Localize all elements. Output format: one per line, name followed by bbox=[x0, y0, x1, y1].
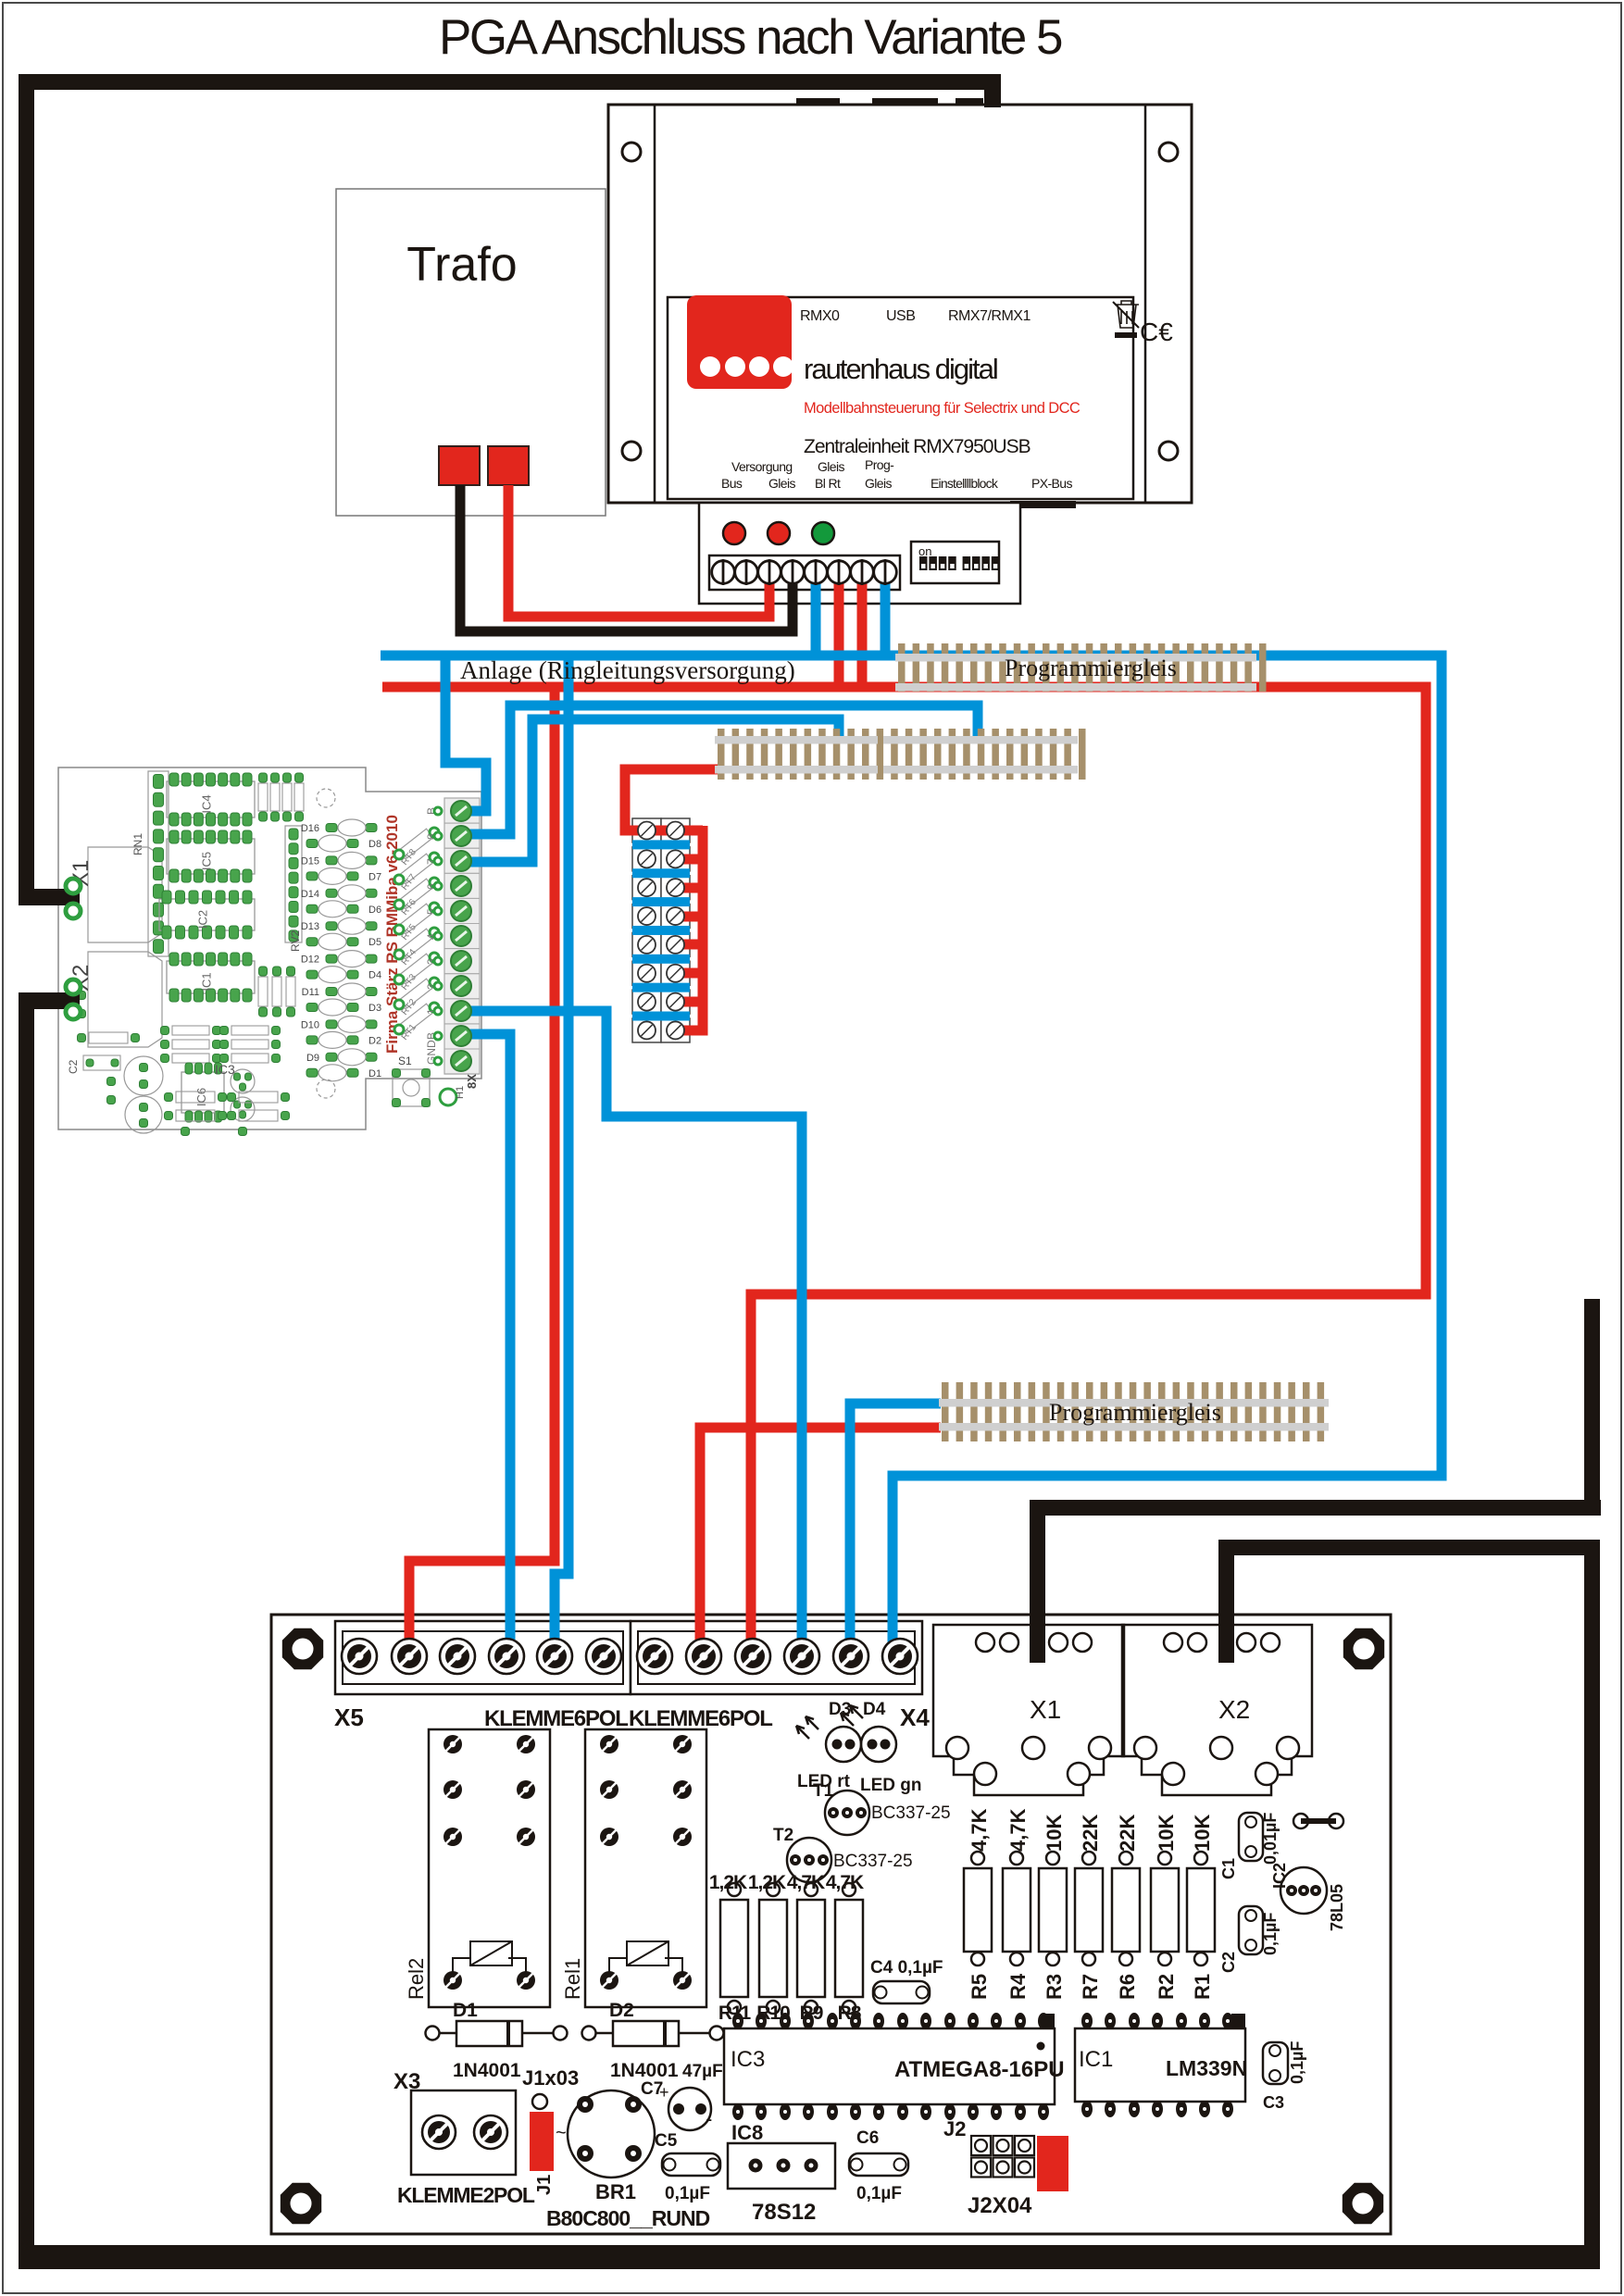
left PCB extra pads bottom bbox=[107, 1078, 116, 1086]
svg-text:Programmiergleis: Programmiergleis bbox=[1005, 655, 1177, 681]
svg-text:D1: D1 bbox=[453, 2000, 478, 2021]
fuse F1 bbox=[89, 1032, 128, 1043]
mounting hole pad top-left bbox=[282, 1628, 323, 1669]
svg-text:Bl Rt: Bl Rt bbox=[815, 476, 841, 491]
svg-text:D4: D4 bbox=[863, 1700, 886, 1719]
svg-text:D9: D9 bbox=[306, 1053, 319, 1064]
housing bottom tab bbox=[1010, 501, 1076, 508]
left mounting flange line bbox=[654, 105, 656, 503]
resistors R1 R12 R10 R9 bottom rows bbox=[176, 1092, 215, 1103]
svg-text:D8: D8 bbox=[369, 839, 381, 850]
svg-text:IC6: IC6 bbox=[194, 1088, 208, 1106]
resistors R23 R21 area bbox=[258, 783, 268, 811]
svg-text:BC337-25: BC337-25 bbox=[833, 1852, 913, 1871]
wire: red from Gleis Rt screw 7 to Programmiergleis bbox=[857, 572, 868, 687]
wire: trafo red lead to Versorgung bbox=[508, 485, 769, 617]
svg-text:D1: D1 bbox=[369, 1068, 381, 1079]
capacitor C3 bbox=[1263, 2042, 1288, 2084]
resistors R5 R4 R3 R7 R6 R2 R1 vertical bbox=[964, 1868, 992, 1952]
Zentraleinheit terminal screws 1-8 bbox=[712, 561, 735, 584]
transistor T1 bbox=[825, 1791, 869, 1835]
svg-text:on: on bbox=[918, 544, 931, 558]
svg-text:D15: D15 bbox=[301, 855, 319, 867]
svg-text:X4: X4 bbox=[900, 1703, 930, 1731]
svg-text:Programmiergleis: Programmiergleis bbox=[1049, 1399, 1221, 1426]
tact switch S1 bbox=[393, 1069, 430, 1106]
svg-text:4,7K: 4,7K bbox=[826, 1872, 864, 1893]
Zentraleinheit RMX7950USB housing bbox=[608, 105, 1192, 503]
svg-text:ATMEGA8-16PU: ATMEGA8-16PU bbox=[894, 2057, 1065, 2082]
IC6 opto bbox=[181, 1072, 224, 1113]
mounting hole pad bottom-left bbox=[281, 2183, 321, 2224]
svg-text:C2: C2 bbox=[1219, 1952, 1238, 1973]
middle terminal block 2x8 bbox=[632, 818, 661, 842]
capacitor C2 left board bbox=[83, 1055, 120, 1070]
svg-text:D14: D14 bbox=[301, 889, 319, 900]
svg-text:LM339N: LM339N bbox=[1166, 2056, 1247, 2080]
svg-text:BR1: BR1 bbox=[595, 2180, 636, 2203]
svg-text:Modellbahnsteuerung für Select: Modellbahnsteuerung für Selectrix und DC… bbox=[804, 400, 1081, 417]
svg-text:78L05: 78L05 bbox=[1328, 1884, 1346, 1931]
wire jumper top right bbox=[1293, 1814, 1308, 1828]
svg-text:KLEMME6POL: KLEMME6POL bbox=[629, 1706, 772, 1731]
wire: black right vertical (upper, open end) bbox=[1584, 1299, 1600, 1516]
wire: thick black bus top run bbox=[19, 74, 1001, 90]
svg-text:0,1µF: 0,1µF bbox=[665, 2184, 710, 2203]
DIP switch block Einstellblock bbox=[911, 542, 999, 583]
svg-text:Einstellllblock: Einstellllblock bbox=[931, 476, 999, 491]
mounting hole top-left bbox=[622, 143, 641, 161]
svg-text:10K: 10K bbox=[1043, 1815, 1066, 1852]
svg-text:D4: D4 bbox=[369, 970, 381, 981]
wire: blue Anlage ring line bbox=[381, 655, 1442, 1662]
capacitor C2 bbox=[1239, 1906, 1263, 1954]
capacitor C1 bbox=[1239, 1813, 1263, 1861]
svg-text:D5: D5 bbox=[369, 937, 381, 948]
wire: blue branch to left PCB screw B bbox=[445, 655, 486, 811]
voltage regulator IC2 78L05 bbox=[1280, 1867, 1327, 1914]
svg-text:D11: D11 bbox=[302, 987, 319, 998]
svg-text:R7: R7 bbox=[1079, 1974, 1102, 2000]
PCB connector X2 outline bbox=[88, 952, 162, 1047]
diagonal resistors RT1-RT8 bbox=[400, 1004, 433, 1033]
wire: red branch to X5 terminal 2 bbox=[409, 687, 555, 1662]
svg-text:Versorgung: Versorgung bbox=[731, 459, 793, 474]
svg-text:PGA Anschluss nach Variante 5: PGA Anschluss nach Variante 5 bbox=[439, 10, 1062, 65]
mounting hole bottom-left bbox=[622, 442, 641, 460]
svg-text:IC5: IC5 bbox=[200, 852, 214, 870]
wire: black drop into X2 bbox=[1218, 1540, 1234, 1663]
left PCB Firma Staerz BMMiba board outline bbox=[58, 767, 481, 1129]
svg-text:rautenhaus digital: rautenhaus digital bbox=[804, 353, 997, 385]
Trafo connector right (red terminal) bbox=[488, 446, 529, 485]
LED green bbox=[812, 522, 834, 544]
svg-text:0,1µF: 0,1µF bbox=[856, 2184, 902, 2203]
svg-text:+: + bbox=[659, 2083, 669, 2102]
rautenhaus logo red block with four dots bbox=[687, 295, 792, 389]
wire: blue line to left PCB screw 8 and track 2 right bbox=[463, 705, 978, 834]
svg-text:1,2K: 1,2K bbox=[709, 1872, 747, 1893]
svg-text:Gleis: Gleis bbox=[818, 459, 844, 474]
svg-text:J1: J1 bbox=[534, 2175, 555, 2195]
svg-text:D2: D2 bbox=[609, 2000, 634, 2021]
mounting hole bottom-right bbox=[1159, 442, 1178, 460]
svg-text:J2X04: J2X04 bbox=[968, 2193, 1032, 2218]
X3 terminal screws bbox=[422, 2115, 456, 2149]
wire: red zigzag on middle terminal block bbox=[675, 826, 703, 1030]
wire: red feed middle terminal block bbox=[625, 769, 718, 830]
track Programmiergleis 2 bbox=[942, 1382, 949, 1441]
svg-text:R4: R4 bbox=[1006, 1973, 1030, 2000]
transistor T2 bbox=[787, 1838, 831, 1882]
X9 screw terminal body bbox=[444, 798, 480, 1074]
left PCB X9 screws bbox=[451, 801, 471, 821]
svg-text:KLEMME2POL: KLEMME2POL bbox=[397, 2183, 535, 2207]
svg-text:8X: 8X bbox=[465, 1074, 479, 1089]
IC IC4 bbox=[167, 781, 255, 817]
svg-text:0,1µF: 0,1µF bbox=[1261, 1913, 1280, 1955]
svg-text:X5: X5 bbox=[334, 1703, 364, 1731]
svg-text:USB: USB bbox=[886, 308, 915, 324]
connector X2 outline bbox=[1122, 1625, 1312, 1795]
IC3 ATMEGA8-16PU bbox=[724, 2028, 1055, 2104]
svg-text:IC3: IC3 bbox=[731, 2047, 765, 2072]
svg-text:RV2: RV2 bbox=[289, 930, 302, 952]
svg-text:~: ~ bbox=[556, 2123, 567, 2143]
svg-text:KLEMME6POL: KLEMME6POL bbox=[484, 1706, 628, 1731]
left PCB X2 pads bbox=[66, 980, 81, 994]
mounting hole pad bottom-right bbox=[1343, 2183, 1383, 2224]
WEEE crossed-out bin icon bbox=[1115, 301, 1139, 328]
svg-text:-: - bbox=[706, 2107, 712, 2130]
capacitor C6 electrolytic bbox=[125, 1096, 162, 1133]
svg-text:Prog-: Prog- bbox=[865, 457, 894, 472]
wire: blue from Gleis screw 5 to Anlage ring bbox=[811, 572, 821, 655]
IC IC1 bbox=[167, 961, 255, 993]
wire: blue line to left PCB screw 7 and track 2 left bbox=[463, 719, 839, 862]
IC1 LM339N bbox=[1075, 2028, 1245, 2102]
bottom PCB board outline bbox=[271, 1615, 1391, 2234]
wire: black drop to Zentraleinheit bbox=[984, 85, 1001, 107]
svg-text:1,2K: 1,2K bbox=[748, 1872, 786, 1893]
svg-text:R6: R6 bbox=[1116, 1974, 1139, 2000]
housing top connector tab 2 bbox=[872, 98, 938, 106]
wire: black stub to left PCB X1 bbox=[19, 889, 80, 905]
wire: blue branch to X5 terminal 5 bbox=[555, 655, 568, 1662]
LED arrows bbox=[806, 1716, 818, 1729]
svg-text:RN1: RN1 bbox=[131, 833, 144, 855]
svg-text:S1: S1 bbox=[398, 1054, 412, 1067]
svg-text:C3: C3 bbox=[1263, 2093, 1284, 2112]
wire: red from Gleis screw 6 to Anlage ring bbox=[834, 572, 844, 687]
capacitor C5 electrolytic bbox=[124, 1056, 163, 1095]
left PCB tooling hole dashed 1 bbox=[317, 1079, 335, 1098]
svg-text:Rel2: Rel2 bbox=[405, 1958, 428, 2000]
svg-text:R3: R3 bbox=[1043, 1974, 1066, 2000]
svg-text:47µF: 47µF bbox=[682, 2062, 723, 2081]
relay Rel1 bbox=[585, 1729, 706, 2007]
resistor network RV2 bbox=[285, 826, 302, 942]
svg-text:Gleis: Gleis bbox=[865, 476, 892, 491]
wire: blue from Programmiergleis 2 track to X4 terminal 5 bbox=[850, 1404, 941, 1662]
svg-text:T2: T2 bbox=[773, 1826, 793, 1845]
resistors R11 R10 R9 R8 vertical bbox=[720, 1900, 748, 1997]
svg-text:Bus: Bus bbox=[721, 476, 743, 491]
svg-text:PX-Bus: PX-Bus bbox=[1031, 476, 1072, 491]
housing top connector tab 3 bbox=[956, 98, 983, 106]
svg-text:R1: R1 bbox=[1191, 1974, 1214, 2000]
svg-text:0,1µF: 0,1µF bbox=[1288, 2041, 1306, 2084]
svg-text:R2: R2 bbox=[1155, 1974, 1178, 2000]
svg-text:X1: X1 bbox=[1030, 1695, 1061, 1724]
screw terminal strip (8 poles) bbox=[709, 555, 900, 590]
left PCB tooling hole dashed 2 bbox=[317, 789, 335, 807]
svg-text:D6: D6 bbox=[369, 905, 381, 916]
svg-text:IC2: IC2 bbox=[196, 910, 210, 929]
svg-text:1N4001: 1N4001 bbox=[610, 2060, 679, 2081]
wire: blue from left PCB screw B2 to X5 terminal 4 bbox=[463, 1034, 510, 1662]
svg-text:IC3: IC3 bbox=[215, 1062, 235, 1077]
svg-text:BC337-25: BC337-25 bbox=[871, 1803, 951, 1823]
Trafo connector left (black terminal) bbox=[439, 446, 480, 485]
left PCB X1 pads bbox=[66, 879, 81, 893]
resistors R12 R11 area bbox=[258, 977, 268, 1006]
transistor T1 left board bbox=[231, 1097, 255, 1121]
wire: black horizontal from X1 bbox=[1030, 1500, 1601, 1516]
LED D4 bbox=[861, 1727, 896, 1762]
Trafo box bbox=[336, 189, 606, 516]
PCB connector X1 outline bbox=[88, 847, 162, 942]
svg-text:IC4: IC4 bbox=[200, 794, 214, 813]
LED red 1 bbox=[723, 522, 745, 544]
wire: black stub from left PCB X2 bbox=[19, 992, 80, 1009]
LED red 2 bbox=[768, 522, 790, 544]
IC IC5 bbox=[167, 839, 255, 874]
wire: thick black bus bottom run bbox=[19, 2245, 1600, 2269]
connector sub-box bbox=[699, 503, 1020, 604]
red jumper block at J2 bbox=[1037, 2136, 1068, 2191]
svg-text:1N4001: 1N4001 bbox=[453, 2060, 521, 2081]
svg-text:D13: D13 bbox=[301, 921, 319, 932]
svg-text:D16: D16 bbox=[301, 823, 319, 834]
svg-text:Zentraleinheit RMX7950USB: Zentraleinheit RMX7950USB bbox=[804, 436, 1031, 457]
svg-text:Rel1: Rel1 bbox=[561, 1958, 584, 2000]
svg-text:D3: D3 bbox=[369, 1003, 381, 1014]
diode D2 1N4001 bbox=[582, 2027, 596, 2040]
bridge rectifier BR1 B80C800 bbox=[568, 2090, 655, 2177]
transistor T2 left board bbox=[231, 1069, 255, 1093]
svg-text:Trafo: Trafo bbox=[406, 238, 517, 292]
svg-text:D7: D7 bbox=[369, 871, 381, 882]
diode D1 1N4001 bbox=[426, 2027, 440, 2040]
svg-text:4,7K: 4,7K bbox=[1006, 1808, 1030, 1852]
housing top connector tab 1 bbox=[796, 98, 840, 106]
resistors R7 R5 R4 R6 rows bbox=[172, 1026, 209, 1035]
wire: red from Programmiergleis 2 to X4 terminal 2 bbox=[700, 1428, 941, 1662]
LED D3 bbox=[826, 1727, 861, 1762]
svg-text:D10: D10 bbox=[301, 1019, 319, 1030]
right mounting flange line bbox=[1144, 105, 1147, 503]
wire: trafo black lead bbox=[460, 485, 793, 631]
svg-text:B80C800__RUND: B80C800__RUND bbox=[546, 2206, 710, 2230]
svg-text:LED gn: LED gn bbox=[860, 1776, 922, 1795]
track Programmiergleis 1 bbox=[898, 643, 906, 692]
LED H1 bbox=[440, 1089, 456, 1105]
terminal block X5 KLEMME6POL outline bbox=[335, 1621, 631, 1694]
mounting hole pad top-right bbox=[1343, 1628, 1384, 1669]
relay Rel2 bbox=[429, 1729, 550, 2007]
wire: thick black bus left vertical (upper) bbox=[19, 74, 34, 905]
resistor network RN1 bbox=[148, 771, 169, 956]
svg-text:4,7K: 4,7K bbox=[968, 1808, 991, 1852]
svg-text:D2: D2 bbox=[369, 1035, 381, 1046]
wire: thick black bus left vertical (lower) bbox=[19, 992, 34, 2269]
svg-text:C1: C1 bbox=[1219, 1858, 1238, 1879]
svg-text:10K: 10K bbox=[1191, 1815, 1214, 1852]
IC IC2 bbox=[159, 899, 255, 930]
svg-text:C€: C€ bbox=[1140, 318, 1173, 346]
svg-text:IC8: IC8 bbox=[731, 2121, 763, 2144]
svg-text:X2: X2 bbox=[1218, 1695, 1250, 1724]
svg-text:Anlage (Ringleitungsversorgung: Anlage (Ringleitungsversorgung) bbox=[460, 656, 795, 684]
connector X1 outline bbox=[933, 1625, 1124, 1795]
wire: thick black bus right vertical (lower) bbox=[1584, 1548, 1600, 2269]
wire: black drop into X1 bbox=[1030, 1500, 1045, 1663]
svg-text:22K: 22K bbox=[1079, 1815, 1102, 1852]
svg-text:IC1: IC1 bbox=[1079, 2047, 1113, 2072]
svg-text:RMX7/RMX1: RMX7/RMX1 bbox=[948, 308, 1031, 324]
svg-text:T1: T1 bbox=[813, 1781, 834, 1801]
svg-text:Gleis: Gleis bbox=[768, 476, 795, 491]
svg-text:22K: 22K bbox=[1116, 1815, 1139, 1852]
svg-text:D12: D12 bbox=[301, 955, 319, 966]
svg-text:C2: C2 bbox=[67, 1059, 80, 1074]
unit label plate bbox=[668, 297, 1133, 499]
svg-text:10K: 10K bbox=[1155, 1815, 1178, 1852]
wire: black horizontal to X2 bbox=[1218, 1540, 1600, 1555]
wire: blue from screw 8 to Programmiergleis 1 bbox=[885, 572, 895, 655]
svg-text:J1x03: J1x03 bbox=[522, 2066, 579, 2090]
track Anlage section 2 bbox=[718, 729, 725, 780]
wire: red Anlage ring line bbox=[382, 687, 1426, 1662]
svg-text:78S12: 78S12 bbox=[752, 2200, 816, 2225]
wire: blue from left PCB screw 1 to X4 terminal 4 bbox=[463, 1011, 802, 1662]
X5/X4 terminal screws bbox=[342, 1639, 377, 1674]
connector X1 pin holes bbox=[976, 1633, 994, 1652]
svg-text:IC1: IC1 bbox=[200, 972, 214, 991]
svg-text:C6: C6 bbox=[856, 2128, 879, 2148]
terminal block X4 KLEMME6POL outline bbox=[631, 1621, 922, 1694]
svg-text:C4 0,1µF: C4 0,1µF bbox=[870, 1958, 943, 1978]
svg-text:R5: R5 bbox=[968, 1974, 991, 2000]
svg-text:IC2: IC2 bbox=[1270, 1863, 1289, 1889]
svg-text:C5: C5 bbox=[655, 2131, 678, 2151]
svg-text:4,7K: 4,7K bbox=[787, 1872, 825, 1893]
svg-text:J2: J2 bbox=[943, 2117, 966, 2140]
mounting hole top-right bbox=[1159, 143, 1178, 161]
svg-text:RMX0: RMX0 bbox=[800, 308, 840, 324]
connector X2 pin holes bbox=[1164, 1633, 1182, 1652]
svg-text:0,01µF: 0,01µF bbox=[1261, 1813, 1280, 1865]
